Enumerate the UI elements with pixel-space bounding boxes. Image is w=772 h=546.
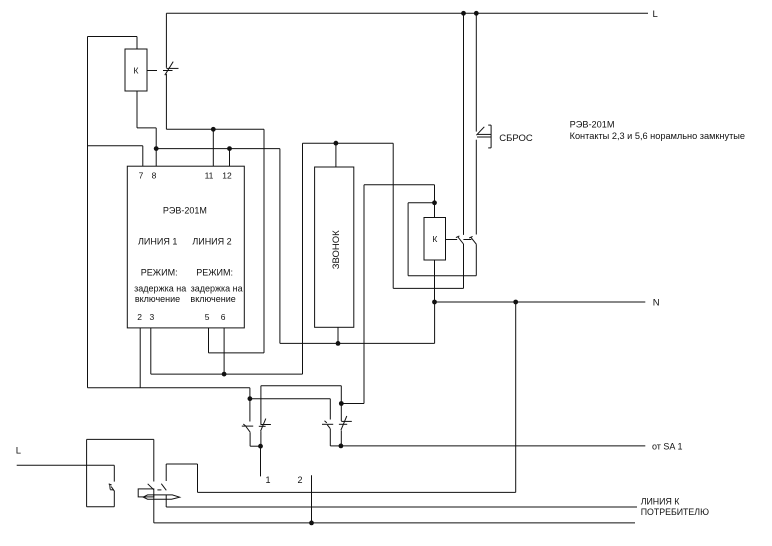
contact R2 tick upper bbox=[341, 420, 352, 422]
switch SA1 arrow tick bbox=[109, 484, 112, 485]
svg-text:ЛИНИЯ 2: ЛИНИЯ 2 bbox=[192, 237, 231, 247]
wire riser x364 bbox=[363, 185, 365, 404]
contact L1 blade bbox=[246, 427, 250, 433]
wire left box left edge bbox=[86, 439, 88, 506]
wire pins 8-12 horizontal y148 bbox=[156, 148, 280, 150]
contact A blade tick bbox=[456, 236, 460, 238]
contact R1 tick bbox=[322, 423, 333, 425]
wire L input horizontal bbox=[17, 464, 115, 466]
wire pin11 riser bbox=[212, 129, 214, 166]
contact R1 mini slash bbox=[325, 421, 327, 423]
bell HA1 box ZVONOK bbox=[315, 167, 354, 327]
wire bell top stub bbox=[335, 143, 337, 167]
contact B blade bbox=[471, 237, 476, 244]
wire riser x515 bbox=[515, 302, 517, 492]
wire contact L2 top vertical bbox=[260, 386, 262, 425]
wire bell bottom horizontal y343 bbox=[338, 342, 435, 344]
wire riser x408 bbox=[407, 203, 409, 276]
svg-text:6: 6 bbox=[221, 312, 226, 322]
junction pin8 bbox=[154, 146, 159, 151]
pushbutton SBROS bracket bottom cap bbox=[488, 147, 491, 149]
wire pin5 stub bbox=[208, 328, 210, 353]
svg-text:РЕЖИМ:: РЕЖИМ: bbox=[141, 267, 178, 277]
junction pin12 bbox=[227, 146, 232, 151]
wire to bell bottom horizontal bbox=[280, 342, 338, 344]
wire contact R2 top vertical bbox=[340, 386, 342, 421]
wire plug pole left top vertical bbox=[153, 439, 155, 481]
junction ot SA1 bbox=[339, 444, 344, 449]
plug link dash bbox=[157, 489, 161, 491]
wire contact B bottom horizontal y275 bbox=[408, 275, 476, 277]
svg-text:2: 2 bbox=[298, 475, 303, 485]
relay coil K1 bbox=[125, 49, 147, 91]
junction pin6 bbox=[222, 372, 227, 377]
wire right box right edge bbox=[197, 464, 199, 492]
svg-text:РЭВ-201М: РЭВ-201М bbox=[163, 206, 207, 216]
wire pin2 stub bbox=[139, 328, 141, 388]
wire right box top edge bbox=[166, 463, 197, 465]
wire K1 top stub bbox=[136, 37, 138, 50]
wire N line bbox=[435, 301, 646, 303]
wire plug pole left lower vertical bbox=[153, 494, 155, 523]
contact K1 blade slash bbox=[165, 62, 173, 76]
pushbutton SBROS bracket vertical bbox=[490, 125, 492, 148]
svg-text:Контакты 2,3 и 5,6 норамльно з: Контакты 2,3 и 5,6 норамльно замкнутые bbox=[570, 131, 745, 141]
junction right pair top bbox=[339, 401, 344, 406]
svg-text:К: К bbox=[134, 65, 139, 75]
wire contact B middle vertical bbox=[475, 140, 477, 235]
junction N riser bbox=[513, 300, 518, 305]
svg-text:5: 5 bbox=[205, 312, 210, 322]
wire pin3 stub bbox=[150, 328, 152, 374]
svg-text:РЭВ-201М: РЭВ-201М bbox=[570, 119, 615, 129]
svg-text:L: L bbox=[653, 9, 658, 20]
wire contact K1 lower vertical bbox=[165, 74, 167, 130]
switch SA1 blade diagonal bbox=[111, 487, 114, 492]
wire line to consumer 2 bbox=[154, 522, 635, 524]
wire terminal 2 stub bbox=[311, 475, 313, 523]
wire pin3 riser x302 bbox=[302, 143, 304, 374]
plug pole right blade bbox=[161, 484, 166, 491]
wire pin7 stub bbox=[142, 146, 144, 166]
wire bell bottom stub bbox=[337, 327, 339, 343]
wire switch SA1 upper vertical bbox=[113, 465, 115, 481]
contact L1 mini slash bbox=[243, 424, 245, 426]
wire pin3 horizontal y374 bbox=[151, 373, 303, 375]
wire L top line bbox=[166, 12, 648, 14]
wire K1 top horizontal bbox=[88, 36, 138, 38]
wire riser x393 bbox=[392, 143, 394, 288]
pushbutton SBROS bridge line 2 bbox=[477, 136, 491, 138]
svg-text:ЛИНИЯ 1: ЛИНИЯ 1 bbox=[138, 237, 177, 247]
wire horizontal y492 bbox=[198, 491, 516, 493]
wire bell top horizontal y143 bbox=[303, 142, 394, 144]
wire K2 top horizontal y202 bbox=[408, 202, 434, 204]
svg-text:от SA 1: от SA 1 bbox=[652, 442, 682, 452]
svg-text:11: 11 bbox=[205, 171, 214, 181]
svg-text:ПОТРЕБИТЕЛЮ: ПОТРЕБИТЕЛЮ bbox=[641, 507, 709, 517]
wire top pair horizontal y385 bbox=[261, 385, 341, 387]
wire plug pole right lower vertical bbox=[165, 495, 167, 507]
plug pole left blade bbox=[148, 484, 154, 490]
wire contact B upper vertical x476 bbox=[475, 13, 477, 131]
wire pin7 horizontal bbox=[88, 145, 143, 147]
svg-text:1: 1 bbox=[266, 475, 271, 485]
pushbutton SBROS bridge line 1 bbox=[477, 133, 491, 135]
wire K1 bottom jog horizontal bbox=[137, 127, 156, 129]
junction L line right bbox=[474, 11, 479, 16]
wire plug pole right top vertical bbox=[165, 464, 167, 481]
svg-text:К: К bbox=[432, 234, 437, 244]
wire ot SA1 line bbox=[341, 445, 645, 447]
wire pin8 riser upper bbox=[155, 128, 157, 149]
svg-text:8: 8 bbox=[152, 171, 157, 181]
junction left pair top bbox=[248, 396, 253, 401]
wire corner vertical to left pair dot bbox=[249, 388, 251, 399]
svg-text:РЕЖИМ:: РЕЖИМ: bbox=[196, 267, 233, 277]
wire contact line horizontal y129 bbox=[166, 128, 264, 130]
wire contact L1 lower vertical bbox=[249, 432, 251, 446]
svg-text:3: 3 bbox=[150, 312, 155, 322]
svg-text:7: 7 bbox=[139, 171, 144, 181]
contact L2 slash bbox=[261, 419, 266, 432]
wire K1 bottom stub bbox=[136, 91, 138, 128]
K2 mechanical link dash 1 bbox=[446, 239, 458, 241]
junction L line left bbox=[461, 11, 466, 16]
svg-text:12: 12 bbox=[222, 171, 232, 181]
wire K2 top horizontal y184 bbox=[364, 184, 435, 186]
wire left box top edge bbox=[87, 438, 154, 440]
wire contact L1 bottom corner bbox=[250, 445, 260, 447]
wire contact R1 bottom corner bbox=[330, 445, 341, 447]
switch SA1 blade bbox=[109, 484, 112, 489]
svg-text:2: 2 bbox=[137, 312, 142, 322]
junction bell bottom bbox=[336, 341, 341, 346]
junction K2 top bbox=[432, 200, 437, 205]
svg-text:ЛИНИЯ К: ЛИНИЯ К bbox=[641, 497, 681, 507]
wire riser x264 bbox=[263, 129, 265, 353]
wire horizontal y398 bbox=[250, 398, 330, 400]
wire pin5 horizontal bbox=[209, 352, 265, 354]
wire contact A lower vertical bbox=[463, 244, 465, 288]
wire K2 up stub bbox=[434, 185, 436, 203]
svg-text:СБРОС: СБРОС bbox=[499, 133, 533, 144]
contact K1 tick left bbox=[163, 70, 173, 72]
pushbutton SBROS bracket top cap bbox=[488, 124, 491, 126]
plug body rectangle bbox=[138, 489, 154, 497]
switch SA1 blade foot bbox=[110, 489, 113, 491]
wire left bus vertical bbox=[87, 37, 89, 388]
relay unit U1 REV-201M box bbox=[127, 166, 244, 328]
wire pin6 stub bbox=[223, 328, 225, 374]
svg-text:задержка на: задержка на bbox=[191, 284, 243, 294]
wire left box bottom edge bbox=[87, 506, 115, 508]
wire terminal 1 stub bbox=[260, 446, 262, 476]
contact R2 tick lower bbox=[339, 423, 347, 425]
K1 mechanical link dash bbox=[147, 70, 157, 72]
contact A blade bbox=[458, 237, 464, 244]
pushbutton SBROS slash bbox=[476, 127, 484, 135]
wire pin8 stub bbox=[155, 149, 157, 167]
K2 mechanical link dash 2 bbox=[463, 239, 471, 241]
wire contact R1 top vertical bbox=[329, 399, 331, 420]
wire contact R1 lower vertical bbox=[329, 429, 331, 446]
contact K1 tick right bbox=[166, 67, 178, 69]
junction terminal 1 bbox=[258, 444, 263, 449]
svg-text:N: N bbox=[653, 298, 660, 309]
contact B blade tick bbox=[469, 236, 472, 238]
wire contact B lower vertical bbox=[475, 244, 477, 275]
wire riser to N dot bbox=[434, 302, 436, 343]
svg-text:задержка на: задержка на bbox=[134, 284, 186, 294]
svg-text:включение: включение bbox=[135, 294, 180, 304]
wire K2 bottom stub bbox=[434, 260, 436, 302]
wire contact R2 lower vertical bbox=[340, 431, 342, 446]
wire to right pair top horizontal y403 bbox=[341, 403, 364, 405]
plug socket oval bbox=[143, 495, 179, 499]
wire pin12 stub bbox=[229, 149, 231, 167]
junction K2 bottom N bbox=[432, 300, 437, 305]
contact L1 tick bbox=[242, 425, 253, 427]
svg-text:включение: включение bbox=[190, 294, 235, 304]
wire contact L1 top vertical bbox=[249, 399, 251, 422]
wire K2 top stub bbox=[434, 203, 436, 218]
contact L2 tick lower bbox=[259, 425, 266, 427]
relay coil K2 bbox=[424, 218, 446, 261]
wire line to consumer 1 bbox=[166, 506, 637, 508]
wire switch SA1 lower vertical bbox=[113, 491, 115, 507]
svg-text:ЗВОНОК: ЗВОНОК bbox=[331, 230, 342, 269]
contact R2 slash bbox=[341, 416, 347, 430]
wire horizontal y387 bbox=[88, 387, 250, 389]
junction bell top bbox=[334, 141, 339, 146]
wire contact A upper vertical x463 bbox=[463, 13, 465, 235]
junction pin11 bbox=[211, 127, 216, 132]
wire contact K1 upper vertical bbox=[165, 13, 167, 68]
contact R1 blade bbox=[327, 425, 330, 429]
junction consumer line 2 bbox=[309, 521, 314, 526]
wire contact A bottom horizontal y288 bbox=[393, 287, 463, 289]
wire contact L2 lower vertical bbox=[260, 431, 262, 446]
contact L2 tick upper bbox=[261, 424, 271, 426]
wire riser x280 bbox=[279, 149, 281, 344]
svg-text:L: L bbox=[16, 446, 21, 457]
